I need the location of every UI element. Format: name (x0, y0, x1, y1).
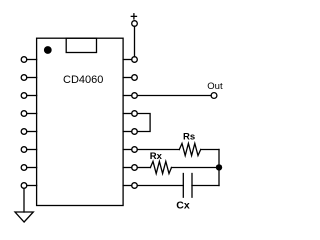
wire pin8 to ground (23, 188, 25, 212)
capacitor Cx left plate (182, 174, 184, 198)
supply terminal circle (132, 21, 138, 27)
Out terminal circle (211, 93, 217, 99)
loop wire joining pins (137, 114, 150, 132)
pin 9 right (Cx pin) (123, 183, 137, 189)
right rail (218, 150, 220, 186)
ground symbol (15, 212, 33, 222)
pin 12 right (loop bottom) (123, 129, 137, 135)
pin 13 right (loop top) (123, 111, 137, 117)
pin 11 right (Rs pin) (123, 147, 137, 153)
pin-1 marker dot (44, 46, 52, 54)
wire to Rs (137, 149, 179, 151)
pin 14 right (Out pin) (123, 93, 137, 99)
pin 16 right (Vdd) (123, 57, 137, 63)
svg-text:Rx: Rx (150, 151, 163, 162)
wire Rs to rail (201, 149, 219, 151)
node junction dot (216, 164, 222, 170)
capacitor Cx right plate (191, 174, 193, 198)
wire Vdd pin up to supply (134, 26, 136, 56)
pin 2 left (21, 75, 36, 81)
wire to Cx (137, 185, 183, 187)
pin 15 right (unconnected) (123, 75, 137, 81)
pin 4 left (21, 111, 36, 117)
wire Cx to rail (192, 185, 219, 187)
wire to Rx (137, 167, 150, 169)
pin 3 left (21, 93, 36, 99)
pin 6 left (21, 147, 36, 153)
pin 10 right (Rx pin) (123, 165, 137, 171)
IC U1 CD4060 body (37, 38, 124, 205)
IC notch (66, 38, 96, 52)
wire to Out terminal (137, 95, 211, 97)
svg-text:Rs: Rs (183, 132, 195, 143)
svg-text:CD4060: CD4060 (63, 74, 103, 86)
resistor Rx (150, 161, 171, 173)
pin 1 left (circle+stub) (21, 57, 36, 63)
svg-text:Cx: Cx (176, 200, 190, 212)
wire Rx to node (172, 167, 220, 169)
pin 5 left (21, 129, 36, 135)
pin 8 left (ground pin) (21, 183, 36, 189)
resistor Rs (179, 143, 200, 155)
plus sign (131, 14, 136, 19)
svg-text:Out: Out (207, 81, 223, 92)
pin 7 left (21, 165, 36, 171)
